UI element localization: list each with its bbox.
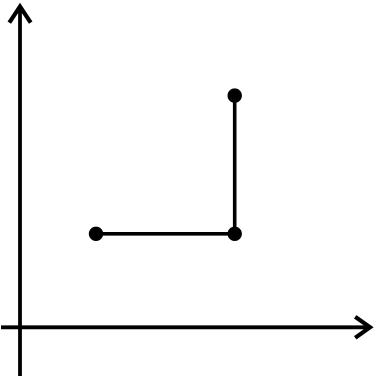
wire vertical segment	[233, 96, 237, 234]
node C (top point)	[228, 88, 242, 102]
node A (left point)	[89, 227, 103, 241]
node B (corner point)	[228, 227, 242, 241]
x-axis	[1, 317, 370, 338]
y-axis	[9, 7, 30, 376]
wire horizontal segment	[96, 232, 235, 236]
